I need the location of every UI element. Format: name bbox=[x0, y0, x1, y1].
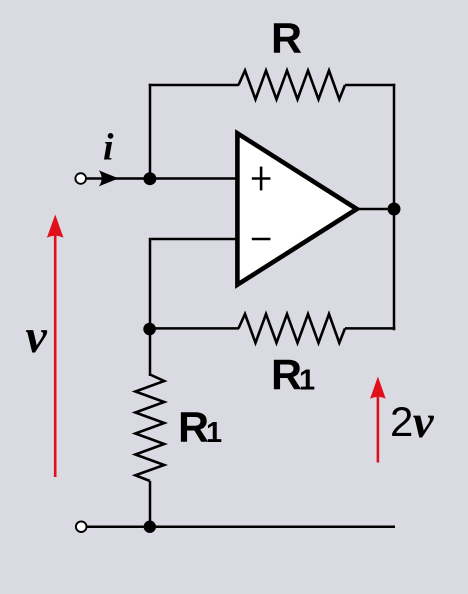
svg-text:v: v bbox=[413, 396, 435, 448]
node: bottom junction bbox=[144, 521, 156, 533]
voltage arrow 2v (red, right) bbox=[370, 377, 386, 463]
wire: left vertical from node down to vertical resistor bbox=[149, 329, 152, 376]
bottom terminal (open circle) bbox=[76, 521, 87, 532]
wire: op-amp output to right node bbox=[356, 208, 394, 211]
wire: R1 line left segment bbox=[150, 327, 239, 330]
op-amp U1 bbox=[237, 133, 356, 284]
wire: right vertical from feedback down to R1 line bbox=[393, 84, 396, 330]
current arrow i (black arrowhead on input lead) bbox=[99, 170, 119, 186]
resistor R (feedback, horizontal zigzag) bbox=[239, 71, 346, 100]
svg-text:v: v bbox=[26, 310, 48, 363]
svg-text:R: R bbox=[271, 14, 302, 62]
input terminal (open circle) bbox=[75, 173, 86, 184]
voltage arrow v (red, left) bbox=[47, 215, 64, 478]
wire: from vertical resistor down to bottom node bbox=[149, 481, 152, 527]
resistor R1 (vertical zigzag) bbox=[135, 375, 164, 482]
wire: left vertical from inverting input down to node bbox=[149, 238, 152, 329]
svg-text:2: 2 bbox=[390, 398, 413, 445]
wire: inverting input lead bbox=[151, 238, 237, 241]
wire: bottom rail bbox=[86, 525, 396, 528]
wire: R1 line right segment bbox=[345, 327, 395, 330]
svg-text:R: R bbox=[271, 351, 302, 399]
node: inverting feedback junction bbox=[143, 323, 156, 336]
resistor R1 (horizontal zigzag) bbox=[239, 314, 346, 343]
wire: input lead from terminal to op-amp + input bbox=[85, 177, 237, 180]
wire: left vertical up from input node to feedback line bbox=[149, 84, 152, 179]
svg-text:i: i bbox=[103, 127, 114, 169]
svg-text:1: 1 bbox=[206, 417, 222, 449]
svg-text:R: R bbox=[178, 403, 209, 451]
op-amp minus sign (inverting input) bbox=[252, 238, 271, 241]
node: input junction bbox=[143, 172, 156, 185]
wire: top feedback right segment bbox=[345, 84, 395, 87]
node: output junction bbox=[388, 203, 401, 216]
svg-text:1: 1 bbox=[299, 364, 315, 396]
wire: top feedback left segment bbox=[149, 84, 239, 87]
op-amp plus sign (noninverting input) bbox=[252, 167, 271, 191]
